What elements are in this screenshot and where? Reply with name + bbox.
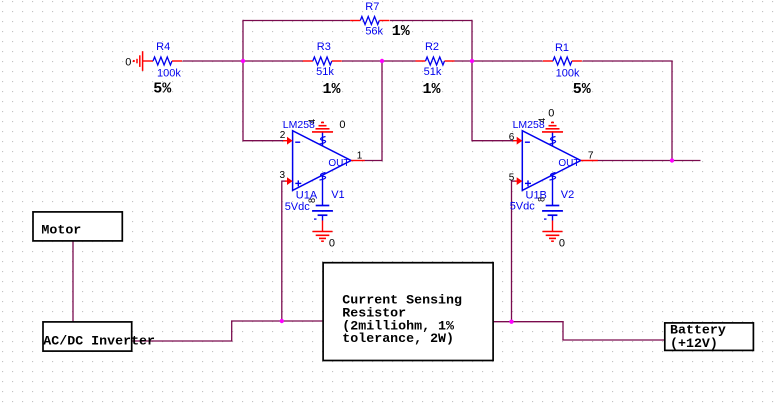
Battery box [665, 323, 754, 351]
svg-text:1%: 1% [423, 81, 442, 98]
U1A bottom power squiggle [320, 173, 326, 181]
wire R7 top right [390, 20, 472, 22]
op-amp U1B triangle [522, 131, 581, 191]
wire corner down to U1B output [671, 61, 673, 161]
svg-text:1: 1 [357, 150, 363, 161]
node junction R1-output [670, 158, 674, 162]
svg-text:R1: R1 [555, 42, 569, 54]
wire to U1A pin 2 [243, 140, 284, 142]
svg-text:V2: V2 [561, 189, 574, 201]
wire R7 left vertical [242, 20, 244, 61]
svg-text:8: 8 [537, 197, 547, 202]
resistor R4 [143, 60, 153, 62]
svg-text:0: 0 [329, 238, 335, 250]
resistor R3 [303, 60, 313, 62]
wire rail to CSR box [231, 320, 323, 322]
U1A top power stem [322, 132, 324, 146]
svg-text:1%: 1% [323, 81, 342, 98]
svg-text:R4: R4 [156, 41, 170, 53]
svg-text:OUT: OUT [328, 158, 349, 169]
U1B minus mark [525, 141, 530, 143]
U1A pin 3 arrow [285, 180, 288, 182]
wire jog down [562, 322, 564, 341]
svg-text:56k: 56k [365, 26, 383, 38]
resistor R2 [416, 60, 426, 62]
U1B pin 6 arrow [513, 140, 518, 142]
svg-text:0: 0 [125, 57, 131, 69]
wire inverter jog up [231, 321, 233, 342]
ground above U1A [312, 131, 333, 133]
svg-text:R3: R3 [317, 41, 331, 53]
U1A top power squiggle [320, 137, 326, 145]
ground above U1B [542, 131, 563, 133]
wire U1B output to end [598, 160, 701, 162]
svg-text:5%: 5% [153, 81, 172, 98]
node junction R3-R2-out [380, 59, 384, 63]
wire U1A pin 3 vertical [281, 181, 283, 322]
wire R2 to R1 [455, 60, 543, 62]
wire R4 to R3 [183, 60, 304, 62]
resistor R7 [350, 20, 360, 22]
svg-text:4: 4 [307, 119, 317, 124]
wire R1 to corner [583, 60, 673, 62]
svg-text:tolerance, 2W): tolerance, 2W) [342, 331, 454, 346]
V1 red stem [322, 221, 324, 232]
U1A output lead [351, 160, 365, 162]
U1B top power squiggle [550, 137, 556, 145]
V2 red stem [552, 221, 554, 232]
svg-text:1%: 1% [392, 23, 411, 40]
svg-text:R2: R2 [425, 41, 439, 53]
svg-text:5Vdc: 5Vdc [510, 201, 536, 213]
node junction rail pin3 [280, 319, 284, 323]
svg-text:51k: 51k [424, 66, 442, 78]
ground below V2 [543, 231, 563, 233]
U1B pin 5 arrow [515, 180, 518, 182]
wire R7 right vertical [471, 20, 473, 61]
svg-text:5%: 5% [573, 81, 592, 98]
wire U1A output vertical to junction [381, 61, 383, 161]
U1A bottom power stem [322, 175, 324, 206]
wire R7 top left [243, 20, 350, 22]
wire Motor to inverter [72, 241, 74, 322]
wire to U1B pin 6 [472, 140, 514, 142]
AC/DC Inverter box [43, 322, 132, 351]
svg-text:5: 5 [509, 172, 515, 183]
svg-text:Motor: Motor [41, 223, 81, 238]
ground below V1 [313, 231, 333, 233]
svg-text:7: 7 [588, 150, 594, 161]
U1B bottom power stem [552, 175, 554, 206]
svg-text:100k: 100k [157, 67, 181, 79]
U1B bottom power squiggle [550, 173, 556, 181]
svg-text:51k: 51k [316, 66, 334, 78]
U1B plus mark [525, 182, 531, 184]
U1A pin 2 arrow [283, 140, 288, 142]
svg-text:0: 0 [339, 119, 345, 131]
wire U1B pin 5 vertical [511, 181, 513, 322]
node junction R4-R3-R7 [241, 59, 245, 63]
battery V1 [316, 205, 330, 207]
U1B top power stem [552, 132, 554, 146]
Motor box [33, 212, 122, 241]
wire junction down to pin2 level [242, 61, 244, 141]
U1B output lead [581, 160, 598, 162]
svg-text:V1: V1 [331, 189, 344, 201]
svg-text:0: 0 [548, 108, 554, 120]
wire junction down to pin6 level [471, 61, 473, 141]
svg-text:(+12V): (+12V) [670, 336, 718, 351]
wire U1A output horizontal [365, 160, 383, 162]
wire U1B pin 5 stub [512, 180, 516, 182]
svg-text:3: 3 [280, 170, 286, 181]
svg-text:R7: R7 [365, 1, 379, 13]
svg-text:2: 2 [280, 130, 286, 141]
svg-text:4: 4 [537, 118, 547, 123]
svg-text:100k: 100k [556, 67, 580, 79]
svg-text:5Vdc: 5Vdc [285, 201, 311, 213]
wire R3 to R2 [342, 60, 416, 62]
svg-text:OUT: OUT [558, 158, 579, 169]
wire inverter right [133, 340, 233, 342]
node junction R2-R1-R7 [470, 59, 474, 63]
node junction rail pin5 [509, 320, 513, 324]
resistor R1 [543, 60, 553, 62]
U1A plus mark [295, 182, 301, 184]
svg-text:0: 0 [559, 238, 565, 250]
op-amp U1A triangle [293, 131, 352, 191]
U1A minus mark [295, 141, 300, 143]
battery V2 [546, 205, 560, 207]
wire to Battery box [562, 339, 664, 341]
Current Sensing Resistor box [323, 263, 493, 361]
svg-text:6: 6 [509, 132, 515, 143]
wire U1A pin 3 stub [282, 180, 286, 182]
wire CSR to corner [494, 321, 564, 323]
svg-text:AC/DC Inverter: AC/DC Inverter [43, 333, 155, 348]
